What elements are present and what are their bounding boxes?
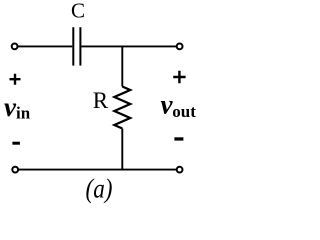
wire junction to resistor (121, 46, 123, 86)
resistor R1 (114, 87, 130, 129)
svg-text:out: out (172, 102, 196, 121)
capacitor C1 left plate (72, 27, 74, 65)
plus sign output (173, 71, 185, 83)
terminal top-right (177, 44, 183, 50)
terminal bottom-right (177, 167, 183, 173)
svg-text:in: in (16, 104, 31, 123)
wire top-right (81, 45, 176, 47)
wire bottom rail (18, 169, 176, 171)
terminal top-left (12, 44, 18, 50)
svg-text:(a): (a) (86, 173, 113, 203)
wire top-left (18, 45, 73, 47)
minus sign output (174, 137, 183, 140)
capacitor C1 right plate (79, 27, 81, 65)
terminal bottom-left (12, 167, 18, 173)
svg-text:C: C (71, 0, 85, 23)
svg-text:R: R (93, 88, 109, 113)
wire resistor to bottom rail (121, 129, 123, 170)
plus sign input (10, 74, 21, 85)
minus sign input (12, 142, 20, 145)
